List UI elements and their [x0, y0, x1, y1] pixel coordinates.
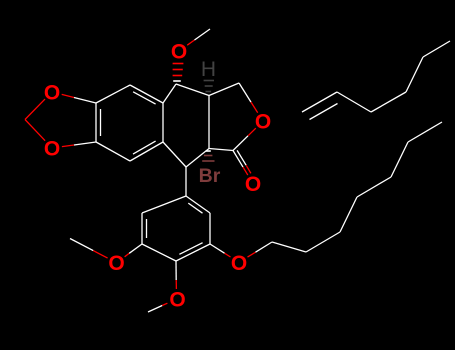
wire left O to aryl C5: [125, 253, 130, 256]
svg-text:O: O: [44, 138, 60, 161]
svg-text:O: O: [169, 289, 185, 312]
wire O-CH2 dioxole top: [25, 99, 45, 119]
hashed wedge C2 to Br: [206, 150, 211, 152]
wire C3 to lactone CH2: [209, 83, 239, 96]
svg-text:Br: Br: [199, 165, 221, 187]
wire dioxole O to benzene C7: [62, 94, 74, 97]
wire lactone CH2 to ring O: [239, 83, 251, 102]
wire carbonyl C to ring O: [233, 136, 248, 151]
wire C1 to aryl ring: [185, 167, 187, 196]
aryl ring double bond inner lines: [188, 203, 202, 213]
svg-text:O: O: [231, 252, 247, 275]
ring C bonds: [163, 84, 176, 103]
methoxy methyl bond top: [187, 40, 194, 45]
aryl ring E: [186, 196, 210, 213]
hashed wedge C3 to H: [204, 80, 214, 82]
svg-text:O: O: [255, 111, 271, 134]
chain double bond pair: [302, 92, 337, 112]
svg-text:O: O: [108, 252, 124, 275]
benzene ring A: [96, 85, 130, 103]
wire right O to aryl C3: [225, 253, 231, 257]
svg-text:O: O: [245, 173, 261, 196]
wire bottom O methyl: [162, 303, 167, 305]
svg-text:H: H: [201, 58, 216, 81]
benzene double bond inner lines: [100, 109, 102, 136]
alkyl chain upper segments: [337, 92, 371, 112]
wire O-CH2 dioxole bottom: [25, 120, 45, 141]
svg-text:O: O: [44, 82, 60, 105]
alkyl chain lower segments: [272, 242, 306, 252]
carbonyl C=O double bond: [233, 151, 243, 168]
hashed wedge C4 to OMe: [173, 63, 184, 65]
wire bottom O to aryl C4: [175, 280, 177, 289]
wire right O to chain C1: [248, 252, 256, 257]
wire left O methyl: [93, 251, 107, 259]
wire dioxole O to benzene C6: [62, 145, 74, 147]
svg-text:O: O: [171, 41, 187, 64]
wire C2 to carbonyl C: [209, 149, 233, 151]
